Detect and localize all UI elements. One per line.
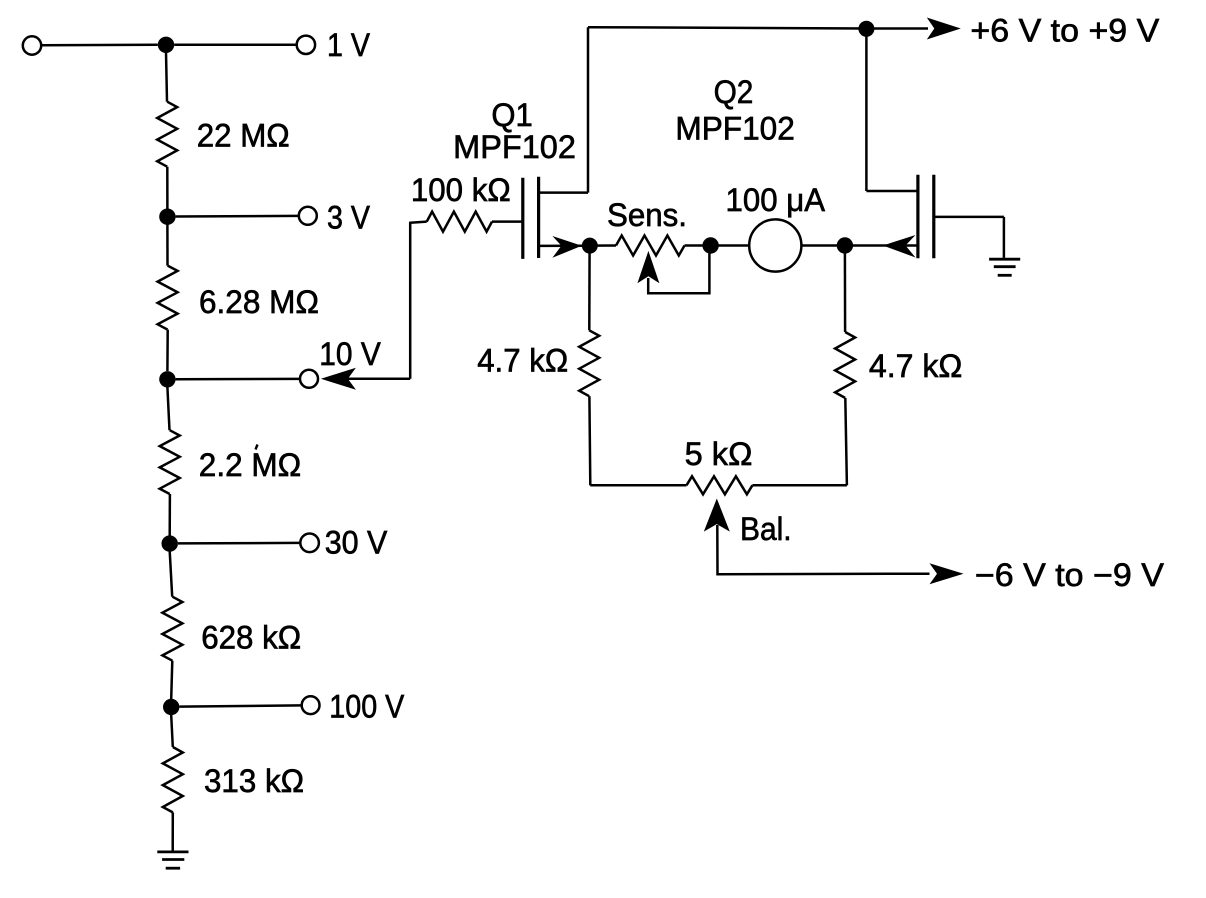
wire node F down to R7 [588,246,591,331]
ground (bottom of divider) [157,852,188,868]
svg-text:4.7 kΩ: 4.7 kΩ [869,348,963,384]
wire R1 to node B [166,167,169,209]
svg-text:3 V: 3 V [327,199,371,235]
wire node B to 3 V terminal [176,215,299,218]
accent mark over M of 2.2 M&#937; [256,445,258,450]
arrowhead on Q2 source [883,235,916,258]
svg-text:+6 V to +9 V: +6 V to +9 V [970,13,1160,49]
wire Q1 drain lead [539,191,588,194]
node G (junction dot on +V rail) [858,21,874,37]
wire node D down to R4 [170,551,173,597]
arrowhead on Q1 source [552,236,581,258]
node D (junction dot, 30 V tap) [162,535,178,551]
transistor Q2 channel bar [916,175,919,258]
svg-text:5 kΩ: 5 kΩ [685,436,753,472]
svg-text:−6 V to −9 V: −6 V to −9 V [975,557,1165,593]
potentiometer Bal. 5 k&#937; (zigzag body) [687,476,753,494]
svg-text:6.28 MΩ: 6.28 MΩ [199,284,319,320]
transistor Q2 gate bar [932,175,935,258]
wire node A to 1 V terminal [174,44,297,47]
node J (Q2 source junction dot) [837,237,853,253]
terminal 3 V (open circle) [299,207,317,225]
wire 10 V terminal to gate riser [348,378,410,381]
wire R5 to ground [171,812,174,852]
potentiometer Sens. (zigzag body) [616,236,685,256]
resistor R8 4.7 k&#937; (right) [835,332,855,398]
resistor R1 22 M&#937; [157,102,177,167]
svg-text:MPF102: MPF102 [675,111,794,147]
terminal 100 V (open circle) [302,696,320,714]
arrowhead +V supply [927,18,961,40]
wire R8 to node J [844,253,847,332]
node C (junction dot, 10 V tap) [159,371,175,387]
wiper arrow of Sens. pot [637,251,659,283]
meter M1 100 uA (circle) [749,219,801,271]
wire gate riser (vertical) [409,222,412,379]
terminal 30 V (open circle) [300,534,319,553]
arrowhead into 10 V terminal [321,368,356,390]
terminal 10 V (open circle) [300,370,318,388]
wire +V rail riser to Q2 drain [865,29,868,191]
wire R2 to node C [166,330,169,371]
svg-text:Q2: Q2 [714,74,754,110]
ground (Q2 gate) [989,259,1020,275]
wire Q2 drain lead [866,190,918,193]
wire node J to Q2 source [845,244,918,247]
wire Q2 gate drop to ground [1003,217,1006,258]
svg-text:1 V: 1 V [327,27,371,63]
wire R6 to Q1 gate [492,220,523,223]
node E (junction dot, 100 V tap) [163,699,179,715]
wire Bal wiper to -V arrow [717,525,929,574]
resistor R4 628 k&#937; [162,597,182,661]
wiper arrow of Bal. pot [704,499,730,532]
svg-text:MPF102: MPF102 [453,129,576,165]
terminal 1 V (open circle) [297,36,315,54]
wire node E down to R5 [171,715,173,747]
wire gate riser to R6 [410,222,427,223]
wire +V rail [588,27,866,28]
node B (junction dot, 3 V tap) [159,209,175,225]
svg-text:30 V: 30 V [325,525,388,561]
svg-text:Sens.: Sens. [607,197,687,233]
svg-text:22 MΩ: 22 MΩ [197,118,290,154]
wire node E to 100 V terminal [179,705,301,706]
wire R3 to node D [168,494,171,536]
wire Q1 drain riser to +V rail [587,27,590,192]
resistor R7 4.7 k&#937; (left) [579,330,599,396]
arrowhead -V supply [930,563,964,584]
resistor R3 2.2 M&#937; [160,430,180,494]
wire R4 to node E [171,661,172,699]
transistor Q1 gate bar [521,178,524,259]
wire input to node A [41,44,158,47]
wire Sens pot to node H [685,244,711,247]
wire up to R8 [845,398,847,485]
wire node C to 10 V terminal [176,378,301,381]
wire +V rail to arrow [866,27,928,30]
wire node B down to R2 [166,224,169,266]
wire node F to Sens pot [590,244,616,247]
node A (junction dot, top of divider) [158,37,174,53]
resistor R6 100 k&#937; (gate resistor) [427,212,492,232]
svg-text:Q1: Q1 [491,97,532,133]
node H (junction dot, pot/meter) [702,237,718,253]
svg-text:Bal.: Bal. [740,511,792,547]
svg-text:2.2 MΩ: 2.2 MΩ [199,447,301,483]
svg-text:313 kΩ: 313 kΩ [204,763,304,799]
svg-text:10 V: 10 V [319,336,381,372]
wire Q1 source lead [539,244,582,247]
svg-text:100 V: 100 V [329,689,405,725]
wire balance rail right [752,484,847,487]
wire Q2 gate lead [934,216,1004,219]
wire R7 to balance rail [588,396,591,485]
svg-text:100 μA: 100 μA [726,182,826,218]
transistor Q1 channel bar [537,177,540,258]
svg-text:628 kΩ: 628 kΩ [201,620,301,656]
wire node D to 30 V terminal [178,542,301,545]
resistor R2 6.28 M&#937; [158,266,178,330]
wire node H to meter M1 [711,244,750,247]
terminal input (open circle, top left) [23,36,41,54]
node F (Q1 source junction dot) [582,238,598,254]
svg-text:100 kΩ: 100 kΩ [411,172,511,208]
wire node C down to R3 [167,387,169,430]
svg-text:4.7 kΩ: 4.7 kΩ [477,343,568,379]
wire Sens wiper to right terminal [648,253,709,293]
wire balance rail left [590,484,686,487]
wire node A down to R1 [166,52,167,102]
resistor R5 313 k&#937; [163,747,183,812]
wire meter M1 to node J [801,244,845,247]
